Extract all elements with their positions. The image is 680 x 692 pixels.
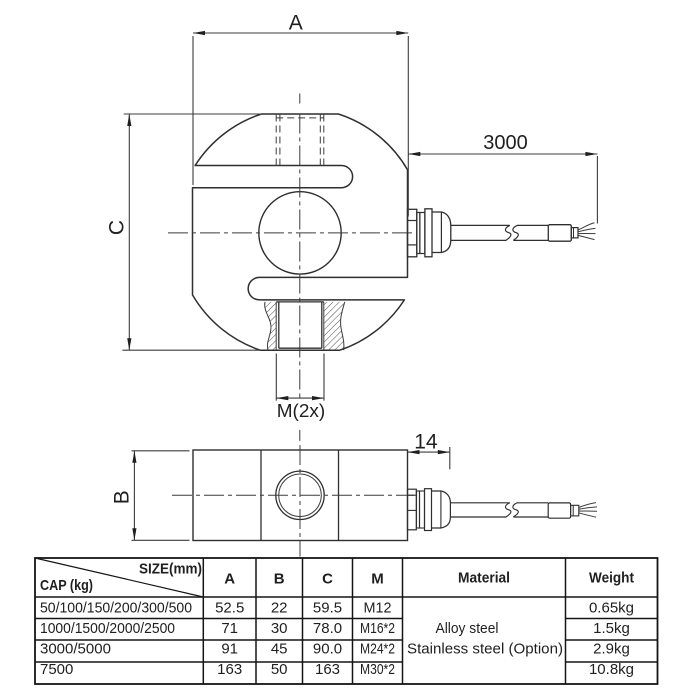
svg-text:M12: M12 xyxy=(364,600,392,617)
svg-text:78.0: 78.0 xyxy=(313,620,342,637)
svg-text:B: B xyxy=(274,571,285,588)
vertical centerline (front) xyxy=(299,94,301,104)
svg-text:M: M xyxy=(371,571,384,588)
cable end connector (front) xyxy=(548,225,571,242)
svg-text:2.9kg: 2.9kg xyxy=(593,641,630,658)
load cell body outline (front view) xyxy=(193,114,408,350)
svg-text:SIZE(mm): SIZE(mm) xyxy=(139,561,202,578)
horizontal centerline (front) xyxy=(168,232,413,234)
wire strands (front) xyxy=(578,223,595,230)
svg-text:Stainless steel (Option): Stainless steel (Option) xyxy=(407,641,563,658)
svg-text:90.0: 90.0 xyxy=(313,641,342,658)
dimension C xyxy=(128,114,130,350)
svg-text:0.65kg: 0.65kg xyxy=(589,600,634,617)
hidden thread hole (top), dashed xyxy=(275,115,277,167)
svg-text:91: 91 xyxy=(221,641,238,658)
svg-text:22: 22 xyxy=(271,600,288,617)
svg-text:3000: 3000 xyxy=(483,132,528,154)
cable gland (side view) xyxy=(408,489,417,530)
svg-text:M(2x): M(2x) xyxy=(277,401,326,421)
side view body xyxy=(193,450,408,541)
svg-text:50: 50 xyxy=(271,661,288,678)
dimension M(2x) (thread) xyxy=(275,354,277,401)
center hole xyxy=(259,192,341,274)
svg-text:M24*2: M24*2 xyxy=(360,641,395,658)
svg-text:59.5: 59.5 xyxy=(313,600,342,617)
cable (front view) with break xyxy=(451,224,510,226)
svg-text:M30*2: M30*2 xyxy=(360,661,395,678)
section hatching right of hole xyxy=(324,302,345,350)
side view centerlines xyxy=(172,494,414,496)
cable (side view) with break xyxy=(450,502,509,504)
svg-text:Alloy steel: Alloy steel xyxy=(436,620,499,637)
svg-text:A: A xyxy=(289,12,303,35)
svg-text:1000/1500/2000/2500: 1000/1500/2000/2500 xyxy=(40,620,175,637)
table row lines xyxy=(35,596,658,598)
svg-text:52.5: 52.5 xyxy=(215,600,244,617)
svg-text:M16*2: M16*2 xyxy=(360,620,395,637)
wire strands (side) xyxy=(579,503,596,508)
svg-text:30: 30 xyxy=(271,620,288,637)
svg-text:Weight: Weight xyxy=(589,570,634,587)
svg-text:10.8kg: 10.8kg xyxy=(589,661,634,678)
svg-text:14: 14 xyxy=(414,431,438,454)
svg-text:7500: 7500 xyxy=(40,661,73,678)
svg-text:50/100/150/200/300/500: 50/100/150/200/300/500 xyxy=(40,600,192,617)
svg-text:CAP (kg): CAP (kg) xyxy=(40,577,93,594)
dimension 14 (gland length) xyxy=(408,451,450,453)
svg-text:A: A xyxy=(224,571,235,588)
dimension B xyxy=(133,451,135,541)
svg-text:C: C xyxy=(106,220,129,235)
svg-text:163: 163 xyxy=(217,661,242,678)
dimension 3000 (cable length) xyxy=(408,153,597,155)
cable end connector (side) xyxy=(548,503,570,518)
svg-text:3000/5000: 3000/5000 xyxy=(40,641,111,658)
cable gland (front view) xyxy=(408,209,417,256)
side view hole circles xyxy=(276,471,324,519)
svg-text:1.5kg: 1.5kg xyxy=(593,620,630,637)
spec table outer border xyxy=(35,558,658,684)
bottom threaded hole (sectioned) xyxy=(275,302,277,350)
svg-text:163: 163 xyxy=(315,661,340,678)
dimension A xyxy=(193,32,408,34)
svg-text:45: 45 xyxy=(271,641,288,658)
svg-text:Material: Material xyxy=(458,570,510,587)
svg-text:C: C xyxy=(322,571,333,588)
svg-text:B: B xyxy=(110,490,133,504)
svg-text:71: 71 xyxy=(221,620,238,637)
table column lines xyxy=(202,558,204,684)
section hatching left of hole xyxy=(265,302,277,350)
header diagonal xyxy=(35,558,203,597)
